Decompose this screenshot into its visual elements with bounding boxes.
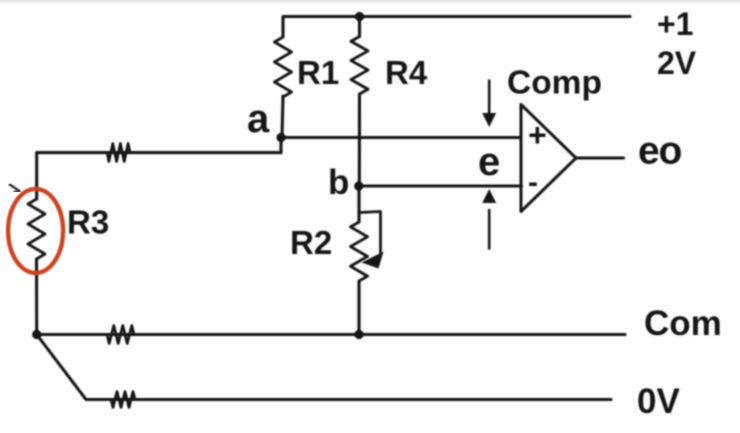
svg-text:e: e	[478, 140, 500, 184]
wire Com rail	[37, 333, 625, 336]
wire comparator output	[576, 156, 624, 159]
junction node b	[354, 181, 363, 190]
svg-text:eo: eo	[638, 130, 681, 173]
wire R1 to node a	[282, 96, 283, 138]
wire R2 bottom to Com rail	[357, 281, 360, 335]
resistor inline squiggle 0V wire	[111, 392, 135, 408]
svg-text:+1: +1	[657, 6, 693, 42]
wire R3 bottom lead	[35, 259, 38, 335]
junction node a	[276, 133, 285, 142]
red ellipse highlight around R3	[8, 189, 63, 273]
svg-text:a: a	[247, 97, 270, 141]
wire node b to comparator minus input	[359, 184, 522, 187]
wire node a to comparator plus input	[281, 136, 521, 139]
svg-text:Comp: Comp	[507, 65, 602, 102]
svg-text:Com: Com	[644, 304, 722, 343]
junction node top rail / R4	[355, 12, 364, 21]
svg-text:R2: R2	[290, 224, 332, 261]
potentiometer R2 body	[351, 222, 368, 281]
pen tick mark	[9, 184, 20, 192]
resistor R3	[28, 199, 45, 259]
wire R4 top lead	[358, 17, 361, 37]
resistor inline squiggle Com wire	[107, 326, 134, 344]
resistor inline squiggle left wire	[107, 144, 130, 162]
wire diagonal to 0V rail	[37, 335, 611, 400]
wire left branch with step to node a	[37, 153, 281, 199]
svg-text:R4: R4	[385, 54, 428, 91]
junction node R2 / Com	[354, 330, 363, 339]
svg-text:2V: 2V	[657, 45, 697, 81]
svg-text:+: +	[528, 117, 547, 153]
arrow down above plus input	[488, 81, 491, 117]
svg-text:R3: R3	[67, 204, 109, 241]
arrow up below minus input	[488, 210, 491, 249]
wire R4 bottom to node b	[358, 94, 361, 186]
potentiometer R2 wiper arrowhead	[362, 252, 384, 269]
resistor R1	[275, 37, 292, 97]
svg-text:-: -	[528, 166, 538, 199]
wire b to R2 top	[357, 186, 360, 222]
svg-text:b: b	[328, 163, 349, 202]
op-amp U1 comparator triangle	[521, 105, 576, 212]
wire top rail	[283, 17, 630, 38]
potentiometer R2 wiper arm	[360, 212, 381, 254]
arrowhead up	[482, 189, 496, 203]
svg-text:R1: R1	[297, 54, 339, 91]
svg-text:0V: 0V	[637, 382, 680, 421]
arrowhead down	[482, 113, 496, 127]
resistor R4	[351, 37, 368, 95]
junction node bottom left	[32, 330, 41, 339]
